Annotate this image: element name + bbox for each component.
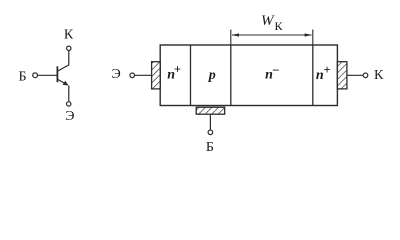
terminal circle Э (symbol) [67,102,71,106]
svg-text:Э: Э [65,109,74,124]
dimension witness line right (n-/n+ junction) [312,30,314,46]
svg-text:К: К [374,68,384,83]
terminal circle Б (structure) [208,130,213,135]
svg-text:+: + [174,62,181,76]
region divider p/n- [230,45,232,106]
terminal circle К (symbol) [67,46,71,50]
transistor VT1 symbol: base bar [56,66,58,82]
label n- (collector drift region) [265,62,280,82]
collector metal contact (hatched) [337,62,347,89]
svg-text:W: W [261,13,275,29]
wire: collector lead of VT1 [57,51,69,72]
terminal circle Б (symbol) [33,73,38,78]
base metal contact (hatched) [196,107,225,114]
svg-text:Б: Б [206,140,214,155]
region divider n+/p [190,45,192,106]
svg-text:К: К [275,19,284,33]
svg-text:−: − [272,62,279,77]
wire: base terminal [209,115,211,130]
emitter metal contact (hatched) [152,62,161,89]
svg-text:+: + [323,63,330,77]
wire: emitter terminal [135,74,152,76]
transistor body rectangle [160,45,337,106]
svg-text:К: К [64,28,74,43]
wire: collector terminal [347,74,363,76]
label n+ (emitter region) [167,62,181,82]
svg-text:p: p [208,68,216,83]
svg-text:Э: Э [111,67,120,82]
label n+ (collector contact region) [316,63,331,83]
label W_K (collector width) [261,13,284,33]
region divider n-/n+ [312,45,314,106]
terminal circle Э (structure) [130,73,135,78]
svg-text:Б: Б [18,69,26,84]
wire: base lead of VT1 [38,74,57,76]
dimension line W_K with arrowheads [231,33,312,36]
wire: emitter lead of VT1 with arrow [57,79,66,84]
dimension witness line left (p/n- junction) [230,30,232,46]
terminal circle К (structure) [363,73,368,78]
